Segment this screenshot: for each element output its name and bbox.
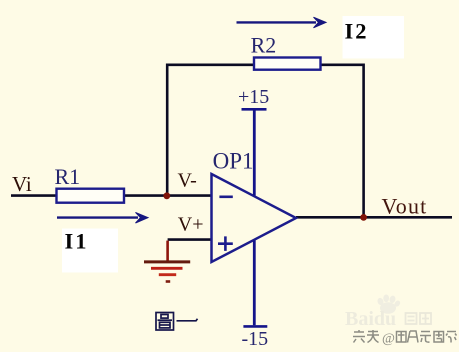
svg-text:R1: R1 (55, 164, 81, 189)
svg-text:@: @ (382, 332, 395, 347)
svg-text:Vi: Vi (12, 172, 32, 196)
svg-text:V-: V- (178, 169, 197, 191)
svg-text:R2: R2 (251, 33, 277, 58)
svg-text:+15: +15 (238, 86, 269, 108)
svg-text:V+: V+ (178, 214, 204, 236)
svg-text:Vout: Vout (382, 194, 428, 219)
svg-text:Baidu: Baidu (345, 308, 396, 330)
svg-text:OP1: OP1 (213, 149, 254, 174)
svg-text:-15: -15 (242, 328, 269, 350)
svg-text:I1: I1 (65, 228, 89, 253)
svg-text:I2: I2 (345, 19, 369, 44)
